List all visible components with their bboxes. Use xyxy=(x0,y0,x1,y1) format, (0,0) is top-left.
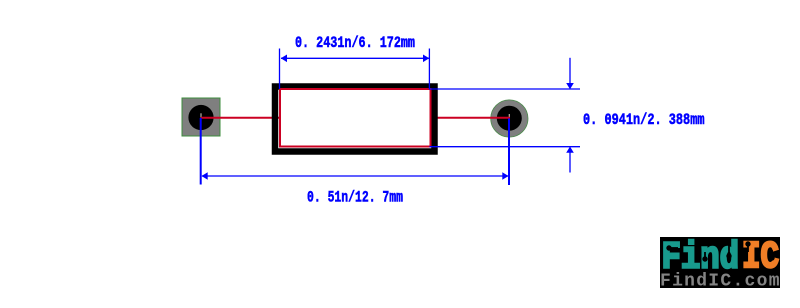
right dimension line upper segment xyxy=(569,58,571,88)
svg-text:0. 51n/12. 7mm: 0. 51n/12. 7mm xyxy=(307,189,403,207)
wire lead left (pad1 to body) xyxy=(201,117,281,119)
wire lead right (body to pad2) xyxy=(429,117,510,119)
pad 1 center cross marker xyxy=(200,113,202,117)
pad 2 (round pad, right) xyxy=(491,100,528,137)
svg-text:0. 0941n/2. 388mm: 0. 0941n/2. 388mm xyxy=(583,111,705,129)
pad 2 center cross marker xyxy=(508,114,510,118)
dimension extension line left (bottom dim) xyxy=(200,118,202,185)
dimension extension line right (top dim) xyxy=(428,49,430,90)
right dimension arrow down xyxy=(566,83,574,89)
resistor body black outline xyxy=(275,87,435,152)
top dimension arrow right xyxy=(423,55,429,63)
FindIC logo black box xyxy=(660,237,780,288)
svg-text:FindIC.com: FindIC.com xyxy=(660,272,780,292)
right dimension arrow up xyxy=(566,147,574,153)
dimension extension line bottom (right dim) xyxy=(430,146,581,148)
dimension extension line right (bottom dim) xyxy=(508,119,510,186)
svg-text:0. 2431n/6. 172mm: 0. 2431n/6. 172mm xyxy=(295,34,415,52)
top dimension arrow left xyxy=(281,55,287,63)
right dimension line lower segment xyxy=(569,148,571,173)
dimension extension line left (top dim) xyxy=(279,49,281,90)
FindIC logo circuit dots xyxy=(667,242,774,261)
dimension extension line top (right dim) xyxy=(430,88,581,90)
pad 1 (square pad, left) xyxy=(182,98,220,136)
bottom dimension arrow right xyxy=(502,172,508,180)
resistor body red courtyard rectangle xyxy=(280,89,431,147)
bottom dimension line xyxy=(202,175,508,177)
top dimension line xyxy=(281,57,429,59)
bottom dimension arrow left xyxy=(202,172,208,180)
